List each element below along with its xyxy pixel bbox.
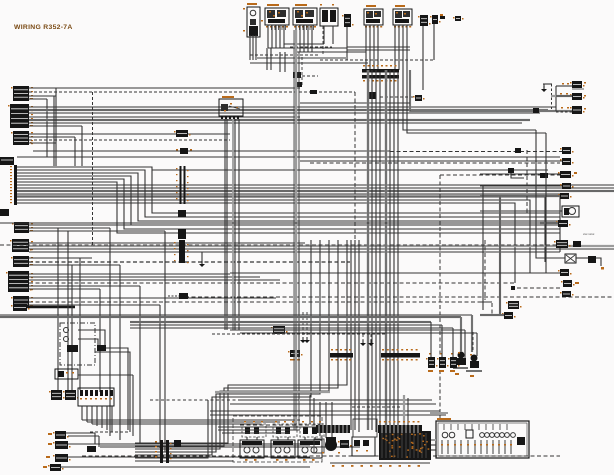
svg-text:WIRING R352-7A: WIRING R352-7A: [14, 24, 73, 31]
svg-text:xxx xxxx: xxx xxxx: [583, 232, 595, 236]
